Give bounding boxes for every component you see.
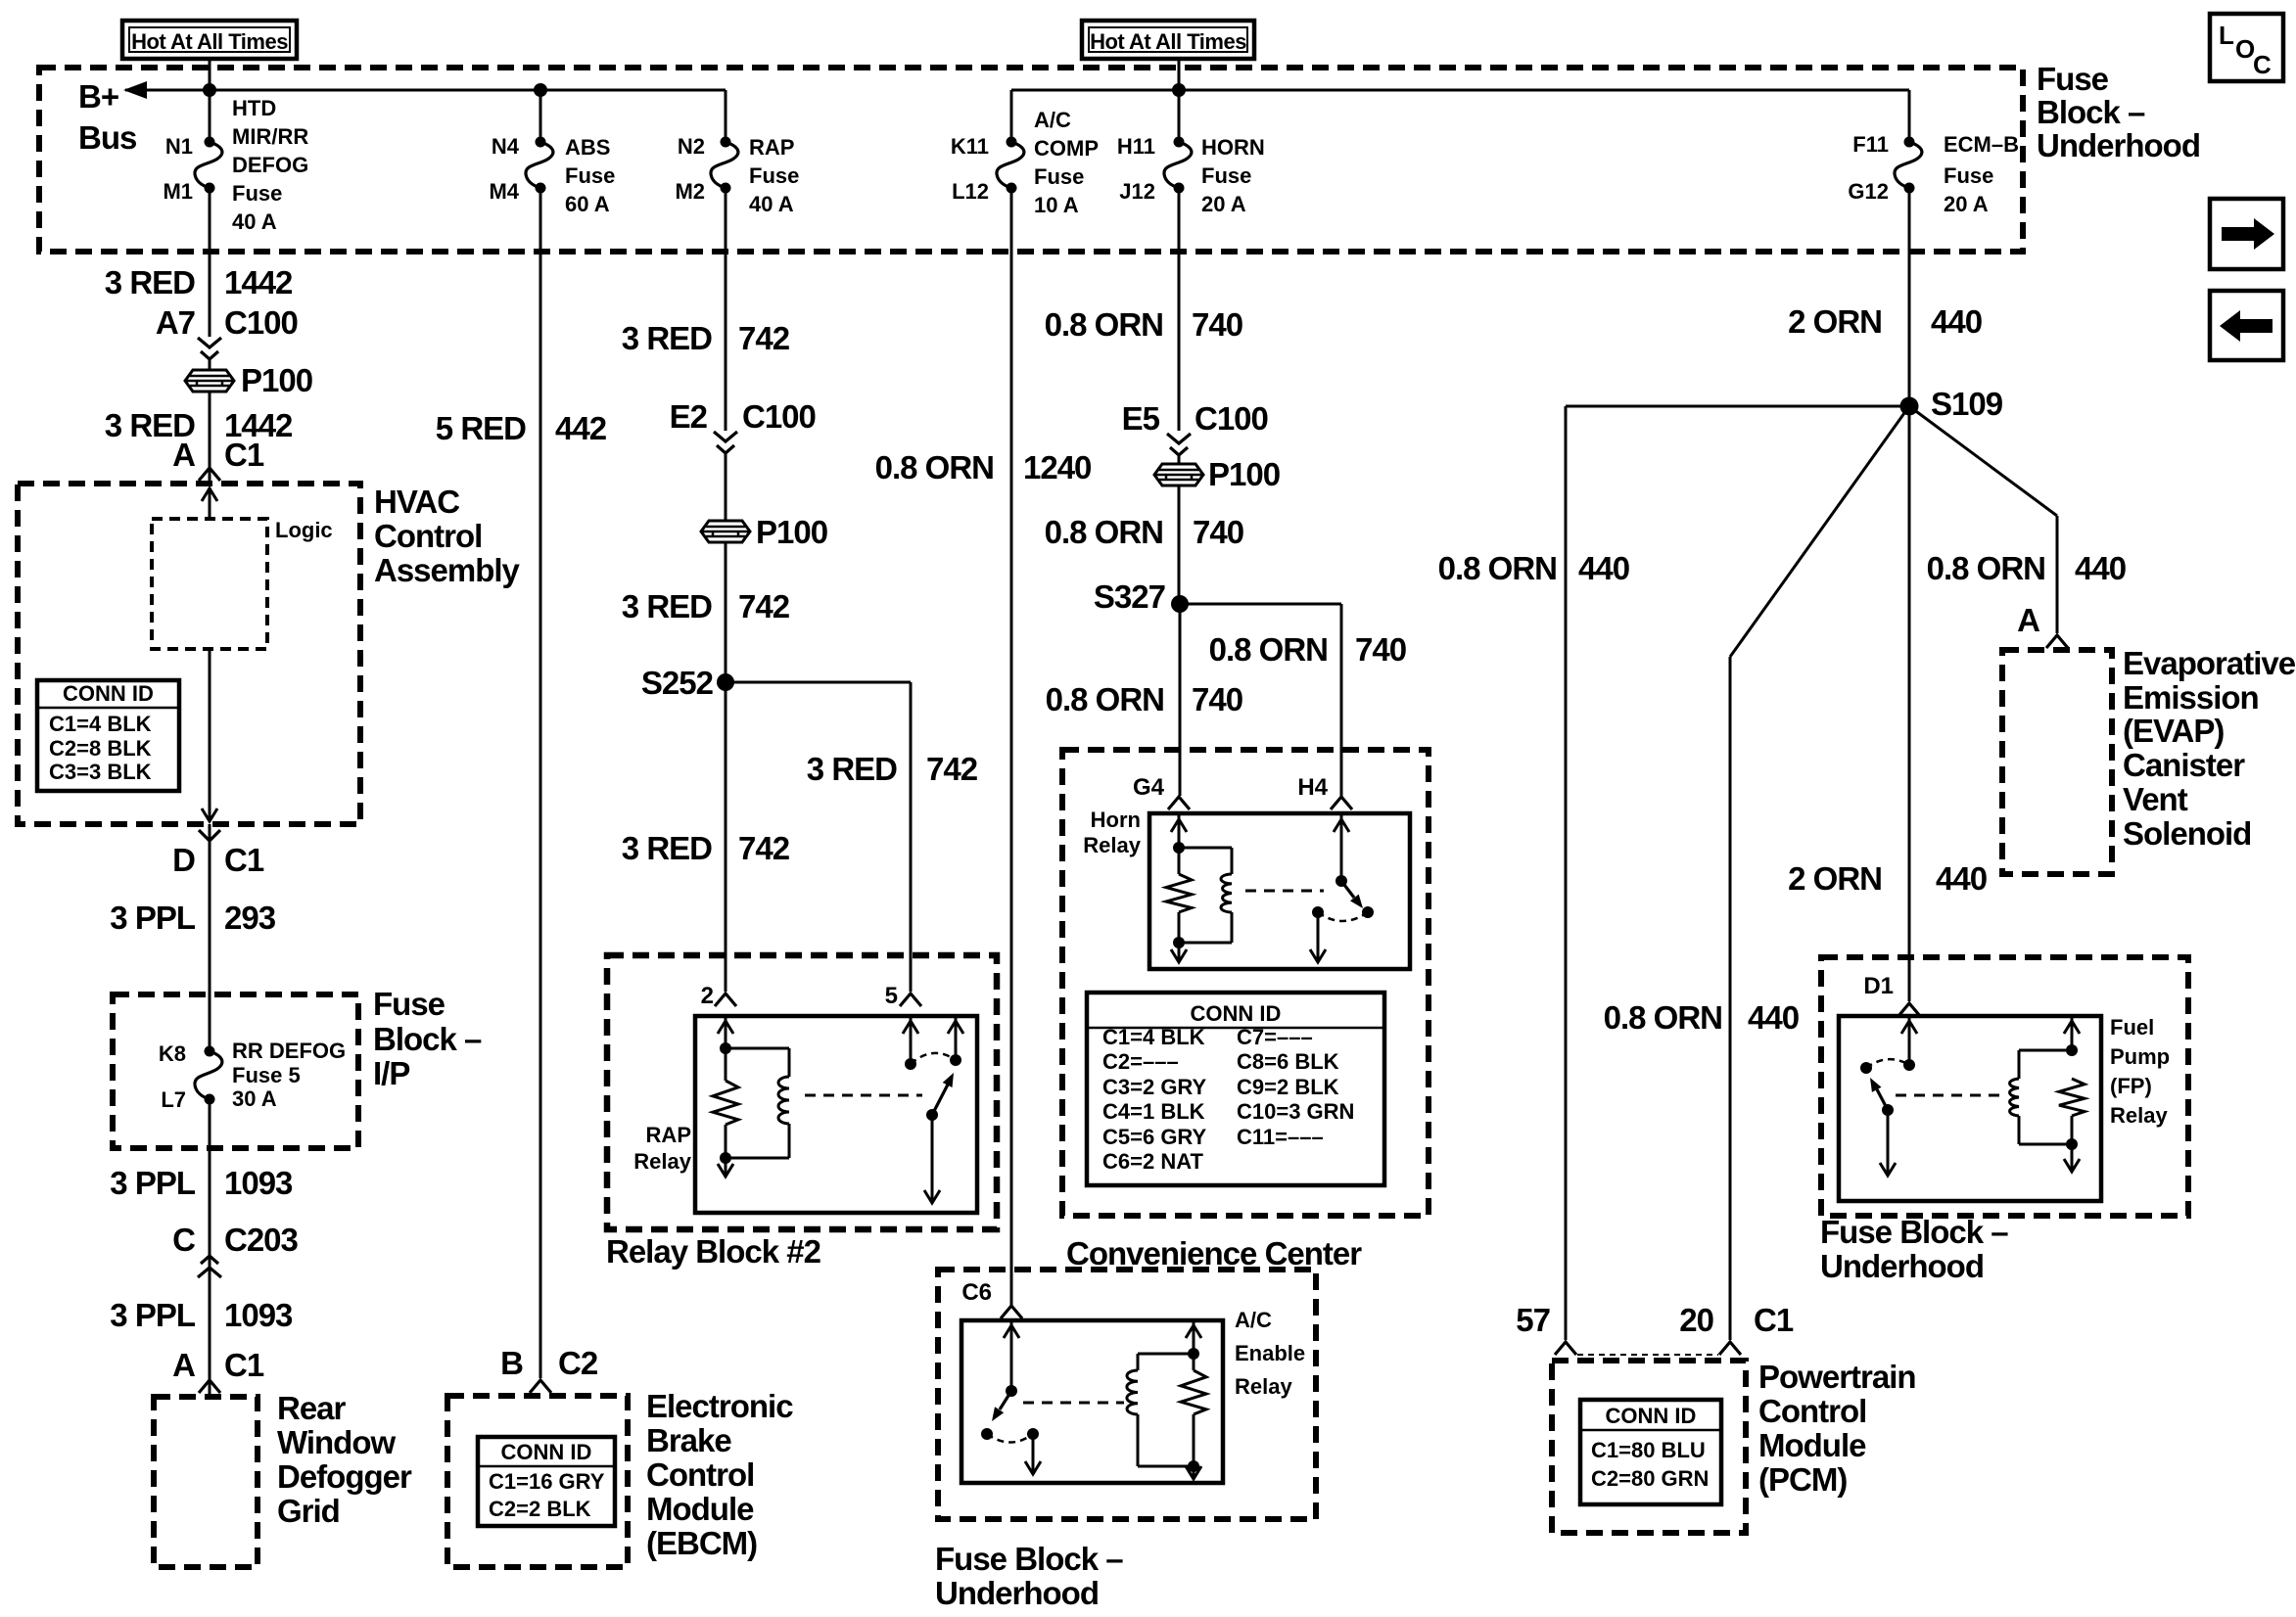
svg-text:Vent: Vent	[2123, 781, 2188, 817]
svg-text:C7=–––: C7=–––	[1237, 1025, 1313, 1049]
svg-text:B: B	[500, 1345, 523, 1381]
PCM connector dashed tie line	[1577, 1354, 1718, 1356]
svg-text:Evaporative: Evaporative	[2123, 645, 2296, 681]
RAP relay coil	[778, 1077, 789, 1124]
B+ bus arrow (left)	[123, 81, 147, 99]
wire: corner down to ECM-B fuse	[1908, 90, 1911, 143]
FP relay right output arrow	[2071, 1144, 2074, 1171]
svg-text:Fuse: Fuse	[373, 986, 445, 1022]
wire 740 segment (J12 to C100)	[1178, 188, 1181, 431]
wire 1240 segment (L12 to C6)	[1010, 188, 1013, 1305]
junction S109	[1900, 397, 1919, 416]
horn relay resistor	[1166, 874, 1192, 912]
convenience center dashed box	[1062, 750, 1429, 1216]
FP relay second contact dot	[1860, 1062, 1872, 1074]
svg-text:30 A: 30 A	[232, 1086, 277, 1111]
powertrain control module dashed box	[1552, 1361, 1746, 1533]
wire segment to P100 grommet	[209, 360, 211, 371]
EVAP canister vent solenoid dashed box	[2002, 650, 2112, 874]
svg-text:Relay Block #2: Relay Block #2	[606, 1233, 821, 1270]
A/C relay second contact dot	[1027, 1428, 1039, 1440]
svg-text:Fuse: Fuse	[2037, 61, 2109, 97]
svg-text:0.8 ORN: 0.8 ORN	[1045, 306, 1163, 343]
wire segment to P100 (wire3)	[725, 454, 727, 522]
svg-text:0.8 ORN: 0.8 ORN	[875, 449, 994, 485]
grommet P100 (wire1)	[185, 370, 234, 392]
fuel pump relay box	[1839, 1016, 2101, 1201]
svg-text:C4=1 BLK: C4=1 BLK	[1102, 1099, 1205, 1124]
horn relay armature dashed link	[1245, 890, 1324, 893]
junction S327	[1171, 595, 1189, 613]
svg-text:3 RED: 3 RED	[105, 264, 195, 300]
wire: corner down to A/C COMP fuse	[1010, 90, 1013, 143]
svg-text:C2: C2	[558, 1345, 598, 1381]
fuse block I/P dashed box	[113, 994, 358, 1148]
svg-text:C11=–––: C11=–––	[1237, 1125, 1324, 1149]
svg-text:Fuse Block –: Fuse Block –	[935, 1541, 1123, 1577]
svg-text:A/C: A/C	[1235, 1308, 1272, 1332]
svg-text:L7: L7	[161, 1087, 186, 1112]
svg-text:CONN ID: CONN ID	[1606, 1404, 1697, 1428]
svg-text:C: C	[172, 1222, 195, 1258]
svg-text:C3=2 GRY: C3=2 GRY	[1102, 1075, 1207, 1099]
pin 20 chevron	[1719, 1342, 1741, 1355]
A/C enable relay box	[961, 1320, 1223, 1483]
pin 2 chevron	[715, 993, 736, 1006]
svg-text:Horn: Horn	[1091, 808, 1141, 832]
svg-text:C10=3 GRN: C10=3 GRN	[1237, 1099, 1354, 1124]
svg-text:K8: K8	[159, 1041, 186, 1066]
wire 440 to PCM pin 57	[1565, 406, 1568, 1340]
svg-text:N1: N1	[165, 134, 193, 159]
svg-text:CONN ID: CONN ID	[501, 1440, 592, 1464]
svg-text:3 PPL: 3 PPL	[110, 900, 196, 936]
svg-text:0.8 ORN: 0.8 ORN	[1045, 514, 1163, 550]
FP relay contact dashed arc	[1866, 1059, 1909, 1068]
relay block #2 dashed box	[607, 955, 997, 1229]
svg-text:5 RED: 5 RED	[436, 410, 526, 446]
A/C relay coil wiring	[1138, 1353, 1194, 1356]
wire: bus corner down to RAP fuse	[725, 90, 727, 143]
FP relay right input arrow	[2071, 1016, 2074, 1050]
svg-text:Electronic: Electronic	[646, 1388, 793, 1424]
svg-text:B+: B+	[78, 78, 118, 115]
svg-text:Pump: Pump	[2110, 1044, 2170, 1069]
A/C relay C6 wire with up arrow	[1010, 1320, 1013, 1391]
svg-text:0.8 ORN: 0.8 ORN	[1046, 681, 1164, 717]
svg-text:Fuse: Fuse	[1201, 163, 1251, 188]
svg-text:D1: D1	[1863, 973, 1894, 999]
svg-text:5: 5	[885, 983, 898, 1009]
svg-text:Fuse: Fuse	[749, 163, 799, 188]
svg-text:C6: C6	[961, 1279, 992, 1306]
A/C relay coil	[1127, 1370, 1138, 1414]
svg-text:ECM–B: ECM–B	[1944, 132, 2019, 157]
wire branch S327 to H4	[1180, 603, 1341, 606]
wire 740 (P100 to S327)	[1178, 485, 1181, 604]
fuse: RAP Fuse 40A	[721, 137, 731, 148]
RAP relay switch blade	[932, 1085, 948, 1115]
svg-text:Assembly: Assembly	[374, 552, 521, 588]
svg-text:G12: G12	[1848, 179, 1889, 204]
FP relay coil bottom junction	[2066, 1138, 2078, 1150]
fuse block - underhood outer dashed box	[39, 68, 2023, 252]
fuse: RR DEFOG Fuse 5 30A	[205, 1046, 215, 1057]
svg-text:S252: S252	[641, 665, 714, 701]
A/C relay output arrow	[1032, 1434, 1035, 1471]
A/C relay coil top junction	[1188, 1348, 1199, 1360]
svg-text:20 A: 20 A	[1944, 192, 1989, 216]
RAP relay coil input arrow	[725, 1016, 727, 1048]
svg-text:HVAC: HVAC	[374, 484, 459, 520]
grommet P100 (wire3)	[701, 521, 750, 542]
horn relay coil input arrow	[1178, 813, 1181, 848]
connector C203 inline (double chevron up)	[201, 1256, 218, 1264]
svg-text:Underhood: Underhood	[935, 1575, 1099, 1611]
connector C1 chevron (HVAC bottom)	[199, 830, 220, 841]
svg-text:C100: C100	[1195, 400, 1268, 437]
svg-text:DEFOG: DEFOG	[232, 153, 308, 177]
FP relay switch pivot dot	[1882, 1104, 1894, 1116]
pin D1 chevron	[1898, 1003, 1920, 1016]
wire: right feed horizontal segment	[1011, 89, 1909, 92]
A/C relay resistor	[1181, 1370, 1206, 1414]
svg-text:F11: F11	[1852, 132, 1889, 157]
wire logic to HVAC bottom with down arrow	[209, 649, 211, 820]
wire 742 segment (M2 to C100)	[725, 188, 727, 431]
svg-text:C3=3 BLK: C3=3 BLK	[49, 760, 152, 784]
svg-text:442: 442	[555, 410, 607, 446]
svg-text:Relay: Relay	[633, 1149, 691, 1174]
FP relay armature dashed link	[1896, 1094, 1999, 1097]
svg-text:(EVAP): (EVAP)	[2123, 713, 2224, 749]
wire: from Hot At All Times (left) down	[209, 59, 211, 143]
svg-text:E5: E5	[1122, 400, 1160, 437]
svg-text:C1: C1	[1754, 1302, 1794, 1338]
svg-text:1240: 1240	[1023, 449, 1091, 485]
fuse: ECM-B Fuse 20A	[1904, 137, 1915, 148]
svg-text:C1=80 BLU: C1=80 BLU	[1591, 1438, 1706, 1462]
fuse block underhood dashed box (A/C enable relay)	[938, 1270, 1316, 1519]
RAP relay coil branch wiring	[726, 1047, 789, 1050]
svg-text:A: A	[172, 437, 195, 473]
svg-text:C100: C100	[742, 398, 816, 435]
RAP relay NO wire with up arrow	[955, 1016, 958, 1060]
power label box: Hot At All Times (right)	[1082, 21, 1254, 59]
svg-text:742: 742	[926, 751, 978, 787]
svg-text:M1: M1	[163, 179, 193, 204]
wire 1093 segment (L7 to defogger grid)	[209, 1099, 211, 1397]
svg-text:3 RED: 3 RED	[622, 588, 712, 624]
LOC reference box	[2210, 14, 2283, 81]
svg-text:C2=8 BLK: C2=8 BLK	[49, 736, 152, 761]
svg-text:3 PPL: 3 PPL	[110, 1165, 196, 1201]
svg-text:1093: 1093	[224, 1165, 293, 1201]
svg-text:Hot At All Times: Hot At All Times	[1090, 29, 1246, 54]
svg-text:Relay: Relay	[1235, 1374, 1292, 1399]
fuse block underhood dashed box (FP relay)	[1821, 957, 2188, 1216]
svg-text:RAP: RAP	[749, 135, 794, 160]
RAP relay resistor	[713, 1081, 738, 1125]
FP relay input contact dot	[1903, 1059, 1915, 1071]
svg-text:P100: P100	[241, 362, 312, 398]
svg-text:Block –: Block –	[373, 1021, 482, 1057]
svg-text:N4: N4	[492, 134, 520, 159]
svg-text:Grid: Grid	[277, 1493, 340, 1529]
pin C6 chevron	[1001, 1306, 1022, 1318]
svg-text:1442: 1442	[224, 264, 293, 300]
wire 1442 segment (fuse M1 to C100)	[209, 188, 211, 337]
svg-text:C: C	[2253, 50, 2272, 79]
svg-text:Enable: Enable	[1235, 1341, 1305, 1365]
RAP relay box	[695, 1016, 977, 1213]
conn id table (PCM)	[1580, 1400, 1721, 1504]
svg-text:C9=2 BLK: C9=2 BLK	[1237, 1075, 1339, 1099]
svg-text:H4: H4	[1297, 774, 1328, 801]
svg-text:D: D	[172, 842, 195, 878]
svg-text:P100: P100	[756, 514, 827, 550]
svg-text:3 RED: 3 RED	[622, 320, 712, 356]
svg-text:S109: S109	[1931, 386, 2003, 422]
svg-text:0.8 ORN: 0.8 ORN	[1927, 550, 2045, 586]
svg-text:C1=16 GRY: C1=16 GRY	[489, 1469, 605, 1494]
svg-text:L: L	[2219, 21, 2234, 50]
svg-text:A: A	[172, 1347, 195, 1383]
connector C100 inline chevron (wire5)	[1167, 434, 1191, 443]
connector C1 chevron (HVAC top)	[199, 468, 220, 481]
svg-text:440: 440	[1748, 999, 1799, 1036]
pin G4 chevron	[1168, 797, 1190, 809]
svg-text:C6=2 NAT: C6=2 NAT	[1102, 1149, 1203, 1174]
svg-text:40 A: 40 A	[232, 209, 277, 234]
svg-text:Canister: Canister	[2123, 747, 2245, 783]
svg-text:Module: Module	[646, 1491, 754, 1527]
svg-text:440: 440	[1936, 860, 1987, 897]
conn id table (HVAC)	[37, 680, 179, 791]
wire into HVAC with up arrow	[209, 487, 211, 521]
pin 5 chevron	[900, 993, 921, 1006]
svg-text:A/C: A/C	[1034, 108, 1071, 132]
RAP relay pin5 wire with up arrow	[910, 1016, 913, 1064]
logic dashed box	[152, 519, 267, 649]
RAP relay NO contact dot	[950, 1054, 961, 1066]
svg-text:740: 740	[1355, 631, 1406, 668]
RAP relay contact dashed arc	[911, 1053, 956, 1064]
svg-text:0.8 ORN: 0.8 ORN	[1209, 631, 1328, 668]
pin 57 chevron	[1555, 1342, 1576, 1355]
wire 742 (P100 to S252)	[725, 542, 727, 682]
fuse: HORN Fuse 20A	[1174, 137, 1185, 148]
svg-text:L12: L12	[952, 179, 989, 204]
svg-text:3 RED: 3 RED	[807, 751, 897, 787]
svg-text:Convenience Center: Convenience Center	[1066, 1235, 1362, 1271]
horn relay coil branch wiring	[1179, 847, 1232, 850]
power label box: Hot At All Times (left)	[122, 21, 297, 59]
RAP relay armature dashed link	[805, 1094, 922, 1097]
svg-text:Control: Control	[1758, 1393, 1866, 1429]
wire S109 branch left horizontal	[1566, 405, 1909, 408]
wire: from Hot At All Times (right) down	[1178, 59, 1181, 143]
svg-text:740: 740	[1192, 306, 1242, 343]
A/C relay contact dashed arc	[987, 1434, 1033, 1443]
wire branch S252 to relay pin 5	[726, 681, 911, 684]
connector C2 chevron (EBCM)	[530, 1380, 551, 1393]
svg-text:C100: C100	[224, 304, 298, 341]
page arrow box (right arrow)	[2210, 199, 2283, 269]
svg-text:740: 740	[1192, 681, 1242, 717]
svg-text:(EBCM): (EBCM)	[646, 1525, 757, 1561]
svg-text:Fuse 5: Fuse 5	[232, 1063, 301, 1087]
svg-text:C1: C1	[224, 842, 264, 878]
svg-text:C8=6 BLK: C8=6 BLK	[1237, 1049, 1339, 1074]
A/C relay switch blade	[1000, 1391, 1011, 1409]
wire HVAC to fuse block I/P	[209, 824, 211, 1051]
svg-text:A: A	[2017, 602, 2039, 638]
svg-text:Brake: Brake	[646, 1422, 731, 1458]
A/C relay coil bottom junction	[1188, 1460, 1199, 1472]
RAP relay coil output arrow	[725, 1158, 727, 1176]
svg-text:Defogger: Defogger	[277, 1458, 412, 1495]
svg-text:P100: P100	[1208, 456, 1280, 492]
svg-text:Fuse: Fuse	[1944, 163, 1993, 188]
svg-text:Control: Control	[646, 1456, 754, 1493]
svg-text:Fuel: Fuel	[2110, 1015, 2154, 1039]
svg-text:742: 742	[738, 830, 790, 866]
FP relay coil	[2010, 1079, 2019, 1116]
FP relay resistor	[2059, 1079, 2085, 1116]
svg-text:3 RED: 3 RED	[622, 830, 712, 866]
svg-text:742: 742	[738, 588, 790, 624]
wire: B+ bus horizontal (left segment)	[125, 89, 726, 92]
wire 742 (S252 to relay pin 2)	[725, 682, 727, 992]
wire 442 segment (ABS fuse to EBCM)	[539, 188, 542, 1378]
svg-text:MIR/RR: MIR/RR	[232, 124, 308, 149]
svg-text:C2=80 GRN: C2=80 GRN	[1591, 1466, 1709, 1491]
svg-text:H11: H11	[1117, 134, 1155, 159]
grommet P100 (wire5)	[1154, 464, 1203, 485]
svg-text:C203: C203	[224, 1222, 299, 1258]
wire: ABS fuse feed from bus	[539, 90, 542, 143]
svg-text:G4: G4	[1133, 774, 1165, 801]
svg-text:740: 740	[1193, 514, 1243, 550]
svg-text:Emission: Emission	[2123, 679, 2259, 716]
svg-text:Underhood: Underhood	[2037, 127, 2200, 163]
svg-text:N2: N2	[678, 134, 705, 159]
svg-text:0.8 ORN: 0.8 ORN	[1604, 999, 1722, 1036]
FP relay coil top junction	[2066, 1044, 2078, 1056]
junction S252	[717, 673, 734, 691]
svg-text:2 ORN: 2 ORN	[1788, 303, 1882, 340]
rear window defogger grid dashed box	[154, 1397, 258, 1567]
svg-text:293: 293	[224, 900, 276, 936]
svg-text:C2=2 BLK: C2=2 BLK	[489, 1497, 591, 1521]
svg-text:I/P: I/P	[373, 1055, 409, 1091]
svg-text:10 A: 10 A	[1034, 193, 1079, 217]
RAP relay common output arrow	[931, 1115, 934, 1202]
connector C100 inline (double chevron)	[198, 338, 221, 347]
svg-text:K11: K11	[951, 134, 989, 159]
A/C relay right input arrow	[1193, 1320, 1195, 1354]
svg-text:Fuse: Fuse	[1034, 164, 1084, 189]
horn relay output contact dot	[1312, 906, 1324, 918]
horn relay box	[1149, 813, 1410, 969]
svg-text:ABS: ABS	[565, 135, 610, 160]
fuse: A/C COMP Fuse 10A	[1007, 137, 1017, 148]
svg-text:A7: A7	[156, 304, 195, 341]
svg-text:M2: M2	[675, 179, 705, 204]
svg-text:Relay: Relay	[1083, 833, 1141, 857]
horn relay coil bottom junction	[1173, 937, 1185, 948]
svg-text:(FP): (FP)	[2110, 1074, 2152, 1098]
wire 1442 segment (P100 to HVAC)	[209, 392, 211, 484]
svg-text:Control: Control	[374, 518, 482, 554]
svg-text:3 PPL: 3 PPL	[110, 1297, 196, 1333]
svg-text:C1: C1	[224, 1347, 264, 1383]
RAP relay switch pivot dot	[926, 1109, 938, 1121]
svg-text:40 A: 40 A	[749, 192, 794, 216]
horn relay NO contact dot	[1362, 906, 1374, 918]
junction dot bus at HTD fuse wire	[203, 83, 216, 97]
fuse: ABS Fuse 60A	[536, 137, 546, 148]
EBCM dashed box	[447, 1396, 628, 1567]
svg-text:Logic: Logic	[275, 518, 333, 542]
wire 740 (S327 to G4)	[1179, 604, 1182, 796]
svg-text:Hot At All Times: Hot At All Times	[131, 29, 288, 54]
svg-text:Fuse: Fuse	[565, 163, 615, 188]
svg-text:C5=6 GRY: C5=6 GRY	[1102, 1125, 1207, 1149]
svg-text:RR DEFOG: RR DEFOG	[232, 1039, 346, 1063]
conn id table (EBCM)	[478, 1437, 615, 1526]
HVAC Control Assembly dashed box	[18, 484, 360, 824]
svg-text:Rear: Rear	[277, 1390, 347, 1426]
page arrow box (left arrow)	[2210, 291, 2283, 360]
svg-text:2 ORN: 2 ORN	[1788, 860, 1882, 897]
svg-text:Powertrain: Powertrain	[1758, 1359, 1916, 1395]
svg-text:Fuse: Fuse	[232, 181, 282, 206]
svg-text:(PCM): (PCM)	[1758, 1461, 1847, 1498]
svg-text:C1=4 BLK: C1=4 BLK	[49, 712, 152, 736]
svg-text:20 A: 20 A	[1201, 192, 1246, 216]
wire segment to P100 (wire5)	[1178, 456, 1181, 465]
svg-text:Block –: Block –	[2037, 94, 2145, 130]
connector C1 chevron (defogger)	[199, 1380, 220, 1393]
svg-text:2: 2	[701, 983, 714, 1009]
wire S109 diagonal to EVAP	[1909, 406, 2057, 516]
pin A chevron (EVAP)	[2046, 635, 2068, 648]
FP relay coil wiring	[2019, 1049, 2072, 1052]
horn relay switch blade	[1341, 881, 1354, 898]
A/C relay right output arrow	[1193, 1466, 1195, 1477]
svg-text:C2=–––: C2=–––	[1102, 1049, 1179, 1074]
svg-text:C1=4 BLK: C1=4 BLK	[1102, 1025, 1205, 1049]
svg-text:Module: Module	[1758, 1427, 1866, 1463]
horn relay coil top junction	[1173, 842, 1185, 854]
svg-text:Bus: Bus	[78, 119, 136, 156]
svg-text:Solenoid: Solenoid	[2123, 815, 2251, 852]
svg-text:HTD: HTD	[232, 96, 276, 120]
FP relay common output arrow	[1887, 1110, 1890, 1173]
FP relay switch blade	[1877, 1089, 1888, 1110]
fuse: HTD MIR/RR DEFOG Fuse 40A	[205, 137, 215, 148]
junction dot bus at HORN fuse wire	[1172, 83, 1186, 97]
A/C relay switch pivot dot	[1006, 1385, 1017, 1397]
svg-text:E2: E2	[670, 398, 708, 435]
svg-text:Underhood: Underhood	[1820, 1248, 1984, 1284]
svg-text:J12: J12	[1119, 179, 1155, 204]
svg-text:CONN ID: CONN ID	[1191, 1001, 1282, 1026]
conn id table (convenience center)	[1087, 993, 1384, 1185]
horn relay H4 wire with up arrow	[1340, 813, 1343, 881]
